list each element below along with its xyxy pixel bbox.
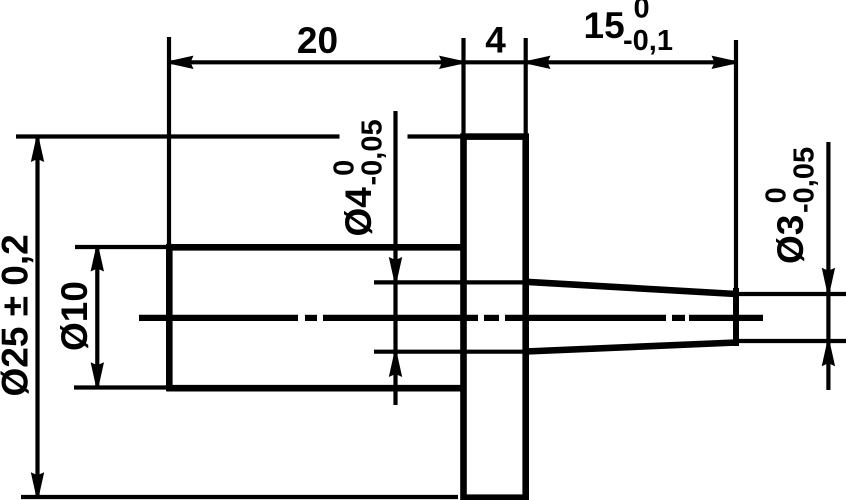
dia25 dimension line — [35, 138, 39, 497]
dia10 top extension line — [75, 245, 166, 249]
dia25 bottom extension line — [21, 495, 458, 499]
label dia3 with tolerance — [761, 147, 821, 264]
dia25 top extension line — [16, 134, 340, 138]
svg-text:Ø10: Ø10 — [54, 281, 95, 351]
extension line x=169 (20 dim) — [167, 37, 171, 246]
svg-text:15: 15 — [584, 5, 625, 46]
arrow 15 right — [712, 56, 735, 69]
taper top edge — [526, 282, 736, 294]
dia4 bottom extension line — [374, 350, 525, 354]
centerline — [139, 315, 763, 321]
arrow dia10 down — [91, 362, 104, 385]
arrow dia25 up — [31, 140, 44, 163]
body left edge — [166, 244, 173, 391]
svg-text:Ø4: Ø4 — [338, 187, 379, 237]
arrow 20 left — [171, 56, 194, 69]
dia4 top extension line — [374, 280, 525, 284]
svg-text:20: 20 — [297, 20, 338, 61]
dia3 bottom extension line — [736, 339, 846, 343]
dia3 top extension line — [736, 292, 846, 296]
arrow dia3 up (outside below) — [822, 344, 835, 367]
horizontal dimension line y=62 — [169, 60, 736, 64]
dia4 dimension line — [393, 111, 397, 405]
arrow dia3 down (outside above) — [822, 268, 835, 291]
svg-text:-0,05: -0,05 — [357, 119, 389, 185]
arrow dia25 down — [31, 472, 44, 495]
svg-text:-0,05: -0,05 — [789, 147, 821, 213]
arrow dia4 up (outside below) — [389, 355, 402, 378]
label dia10 — [54, 281, 95, 351]
svg-text:Ø25 ± 0,2: Ø25 ± 0,2 — [0, 234, 36, 396]
flange outline — [464, 137, 526, 498]
extension line x=736 (15 dim right) — [734, 40, 738, 292]
dia3 dimension line — [826, 142, 830, 390]
svg-text:Ø3: Ø3 — [770, 215, 811, 264]
taper bottom edge — [526, 343, 736, 352]
body bottom edge — [167, 385, 467, 392]
dia10 dimension line — [95, 247, 99, 388]
body top edge — [167, 244, 467, 251]
svg-text:0: 0 — [634, 0, 650, 24]
extension line x=463.5 (flange left, above) — [461, 38, 465, 136]
svg-text:4: 4 — [485, 20, 506, 61]
label dia4 with tolerance — [329, 119, 389, 236]
arrow dia4 down (outside above) — [389, 257, 402, 280]
arrow 15 left / 4 right — [528, 56, 551, 69]
svg-text:-0,1: -0,1 — [623, 25, 673, 57]
dia10 bottom extension line — [74, 385, 166, 389]
taper end cap — [733, 288, 739, 346]
arrow dia10 up — [91, 249, 104, 272]
extension line x=525.7 (flange right, above) — [524, 38, 528, 136]
arrow 20 right / 4 left — [439, 56, 462, 69]
label dia25 — [0, 234, 36, 396]
